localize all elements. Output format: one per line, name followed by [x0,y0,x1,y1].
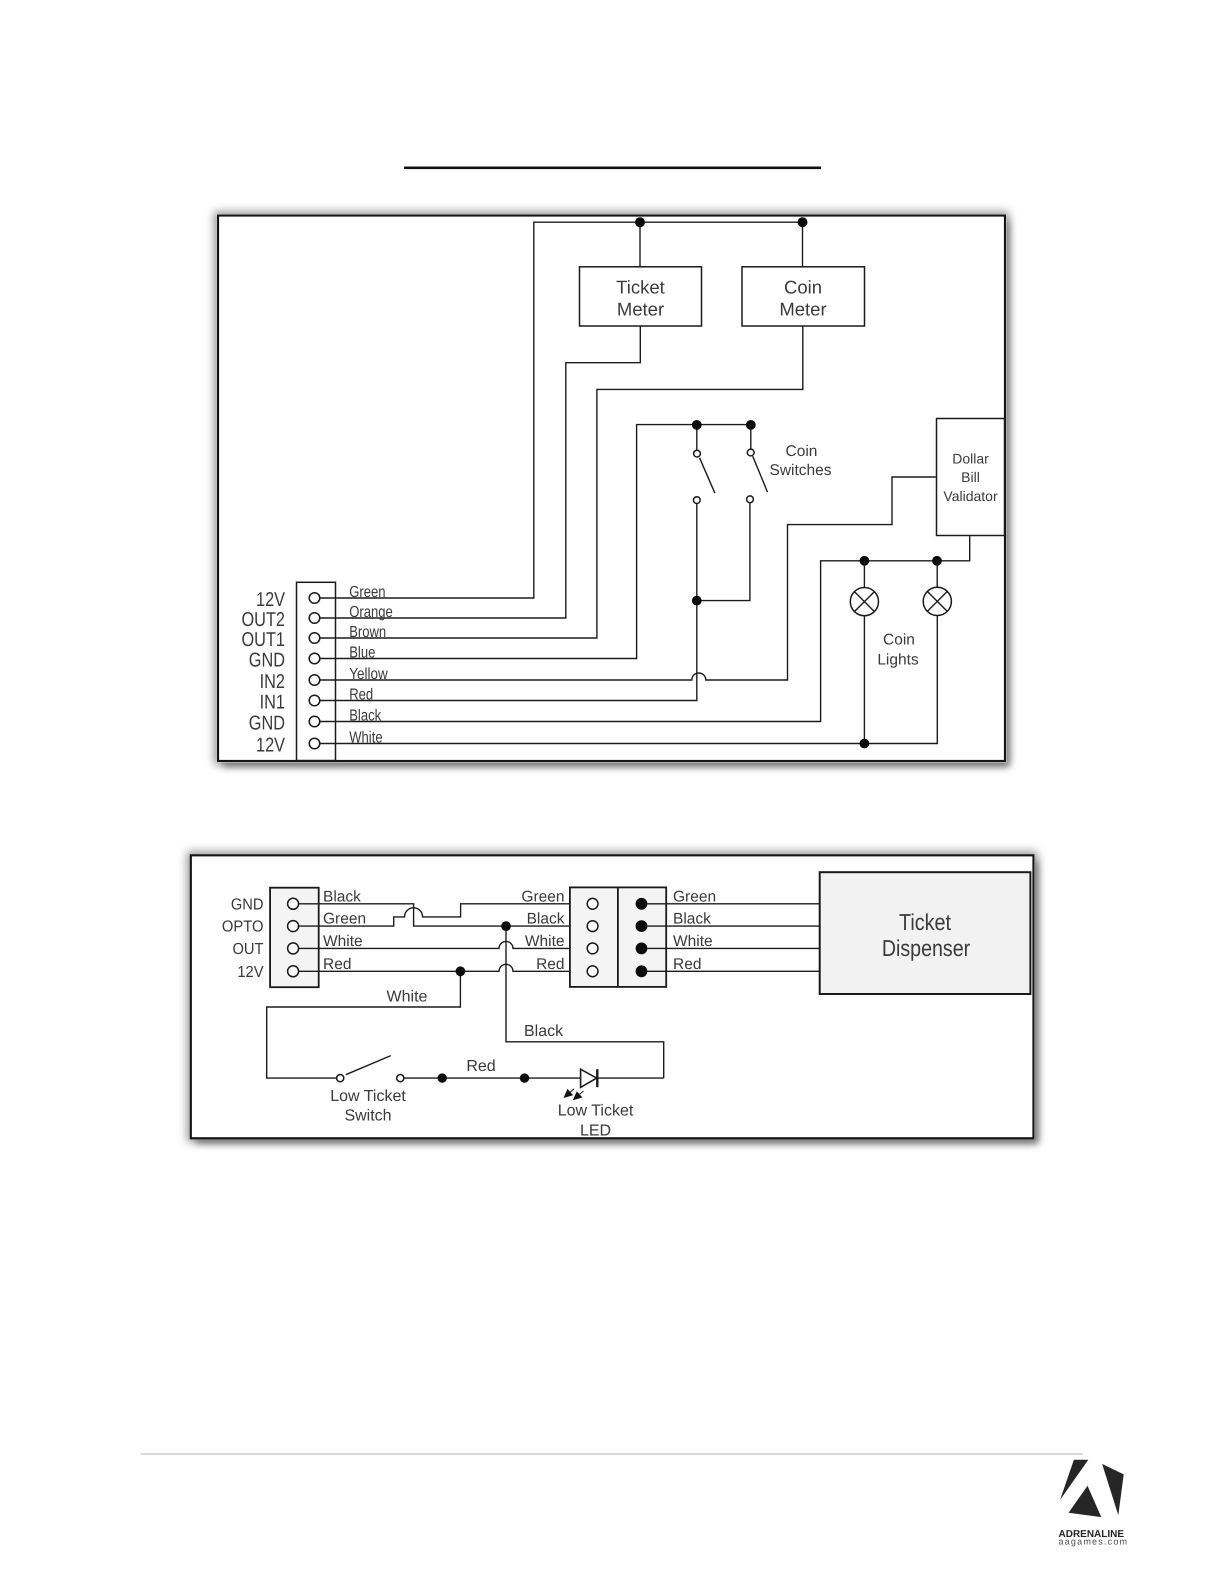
svg-text:IN1: IN1 [260,692,285,714]
wire white branch left lamp [863,616,865,744]
svg-text:White: White [387,989,428,1006]
title underline [404,167,821,170]
junction rail-ticket [635,217,645,227]
coin switches label [769,443,831,479]
svg-text:Yellow: Yellow [349,666,388,683]
wire black branch to LED [506,926,664,1078]
switch stub left [696,425,698,451]
svg-text:Dispenser: Dispenser [882,935,971,961]
svg-text:Meter: Meter [617,299,664,320]
svg-text:Black: Black [673,911,711,928]
wire Green 12V to meters rail [320,222,803,598]
diagram 1 drop shadow [214,212,1009,767]
low ticket switch contact 2 [397,1075,404,1082]
connector J2 block [270,888,319,988]
LED D1 cathode bar [596,1069,598,1087]
J3 left pin 2 [587,921,598,932]
coin switch SW1 blade [700,458,715,494]
pin 1 terminal [309,593,320,604]
coin meter label [779,277,826,320]
svg-text:OUT2: OUT2 [242,609,286,631]
wire White OUT with hop [299,941,588,948]
svg-text:Switches: Switches [769,462,831,479]
diagram 1 frame [218,216,1005,762]
J2 pin 3 [288,943,299,954]
svg-text:Low Ticket: Low Ticket [330,1088,406,1105]
svg-text:Red: Red [536,956,564,973]
svg-text:GND: GND [249,650,285,672]
junction crimp 1 [438,1073,447,1082]
wire LED to black branch [597,1077,663,1079]
junction switch rail right [746,420,756,430]
junction white branch [860,739,870,749]
pin 5 terminal [309,675,320,686]
footer rule [141,1453,1083,1454]
junction red branch [692,596,702,606]
svg-text:GND: GND [231,896,264,913]
coin switch SW1 lower contact [693,497,700,504]
svg-text:Dollar: Dollar [952,451,989,467]
junction black row branch [501,921,511,931]
svg-text:Blue: Blue [349,645,375,662]
logo shard left [1060,1460,1088,1500]
wire white branch to low ticket switch [267,971,461,1078]
svg-text:Red: Red [466,1058,495,1075]
svg-text:White: White [349,730,382,747]
junction red row branch [456,966,466,976]
wire Black GND crossover [299,904,588,926]
wire Red 12V [299,964,588,971]
wire switch to LED [404,1077,581,1079]
coin switch SW1 upper contact [694,450,701,457]
svg-text:Red: Red [673,956,701,973]
svg-text:Coin: Coin [786,443,818,460]
coin light L2 lamp [923,587,951,615]
middle connector J3 outer [570,887,666,987]
wire Red IN1 to coin switches [320,504,697,701]
wire White 12V to coin lights [320,616,937,744]
low ticket switch label [330,1088,406,1125]
coin switch SW2 upper contact [747,449,754,456]
svg-text:aagames.com: aagames.com [1059,1537,1129,1547]
LED D1 emission arrow 1 [564,1089,575,1098]
J3 right pin 3 [636,943,648,955]
LED D1 emission arrow 2 [573,1091,584,1100]
wire Green OPTO crossover with hop [299,904,588,926]
wire Brown OUT1 to coin meter [320,326,803,638]
low ticket switch blade [346,1056,391,1075]
wire Black to dispenser [647,925,819,927]
svg-text:Green: Green [673,888,716,905]
svg-text:Brown: Brown [349,624,386,641]
J3 left pin 3 [587,943,598,954]
svg-text:Ticket: Ticket [616,277,665,298]
svg-text:Lights: Lights [877,652,919,669]
coin light L2 stub [936,561,938,588]
coin lights label [877,632,919,669]
svg-text:Coin: Coin [883,632,915,649]
svg-text:White: White [323,933,363,950]
pin 3 terminal [309,633,320,644]
wire red branch to right switch [697,503,750,601]
pin 7 terminal [309,716,320,727]
svg-text:Black: Black [524,1023,564,1040]
pin 2 terminal [309,613,320,624]
J3 left pin 1 [587,898,598,909]
svg-text:GND: GND [249,713,285,735]
junction crimp 2 [520,1073,529,1082]
ticket meter label [616,277,665,320]
J3 right pin 1 [636,898,648,910]
junction lights rail right [932,556,942,566]
pin 4 terminal [309,653,320,664]
wire Black GND to coin lights rail [320,536,970,722]
J2 pin 4 [288,966,299,977]
J2 pin 1 [288,898,299,909]
svg-text:12V: 12V [256,735,286,757]
svg-text:LED: LED [580,1122,611,1139]
svg-text:White: White [525,933,565,950]
ticket dispenser label [882,909,971,961]
ticket dispenser box [820,872,1031,994]
coin switch SW2 lower contact [747,496,754,503]
wire ticket meter feed [639,222,641,267]
pin 8 terminal [309,738,320,749]
coin light L1 lamp [850,588,878,616]
J3 left pin 4 [587,966,598,977]
junction switch rail left [692,420,702,430]
svg-text:Ticket: Ticket [899,909,952,935]
svg-text:White: White [673,933,713,950]
wire coin meter feed [802,222,804,267]
logo shard center [1069,1486,1102,1517]
middle connector J3 divider [617,887,619,987]
svg-text:12V: 12V [237,964,263,981]
svg-text:Green: Green [521,888,564,905]
switch stub right [750,425,752,450]
junction rail-coin [798,217,808,227]
low ticket LED label [558,1103,634,1140]
svg-text:Black: Black [349,708,382,725]
logo shard right [1102,1464,1124,1515]
coin light L1 stub [863,561,865,588]
svg-text:Green: Green [349,584,385,601]
wire Orange OUT2 to ticket meter [320,326,640,618]
coin switch SW2 blade [753,456,768,492]
diagram 2 drop shadow [187,852,1038,1144]
wire Green to dispenser [647,903,819,905]
svg-text:Black: Black [527,911,565,928]
svg-text:Orange: Orange [349,604,393,621]
svg-text:Meter: Meter [779,299,826,320]
dollar bill validator label [943,451,998,504]
svg-text:Red: Red [349,687,373,704]
ticket meter box [580,267,702,326]
dollar bill validator box [937,419,1005,536]
svg-text:Switch: Switch [344,1108,391,1125]
diagram 2 frame [191,855,1034,1138]
low ticket switch contact 1 [337,1075,344,1082]
svg-text:Black: Black [323,888,361,905]
svg-text:OPTO: OPTO [222,919,264,936]
coin meter box [742,267,865,326]
wire Red to dispenser [647,970,819,972]
svg-text:OUT1: OUT1 [242,629,286,651]
J3 right pin 2 [636,920,648,932]
wire White to dispenser [647,947,819,949]
svg-text:Green: Green [323,911,366,928]
svg-text:IN2: IN2 [260,671,285,693]
J2 pin 2 [288,921,299,932]
pin 6 terminal [309,695,320,706]
junction lights rail left [860,556,870,566]
LED D1 triangle [581,1069,597,1087]
svg-text:Low Ticket: Low Ticket [558,1103,634,1120]
svg-text:Bill: Bill [961,469,980,485]
wire Blue GND to coin switch rail [320,425,751,659]
wire Yellow IN2 to dollar bill validator [320,477,937,680]
svg-text:Coin: Coin [784,277,822,298]
svg-text:Validator: Validator [943,488,998,504]
J3 right pin 4 [636,965,648,977]
connector J1 block [297,582,336,760]
svg-text:OUT: OUT [233,941,264,958]
svg-text:Red: Red [323,956,351,973]
svg-text:12V: 12V [256,589,286,611]
